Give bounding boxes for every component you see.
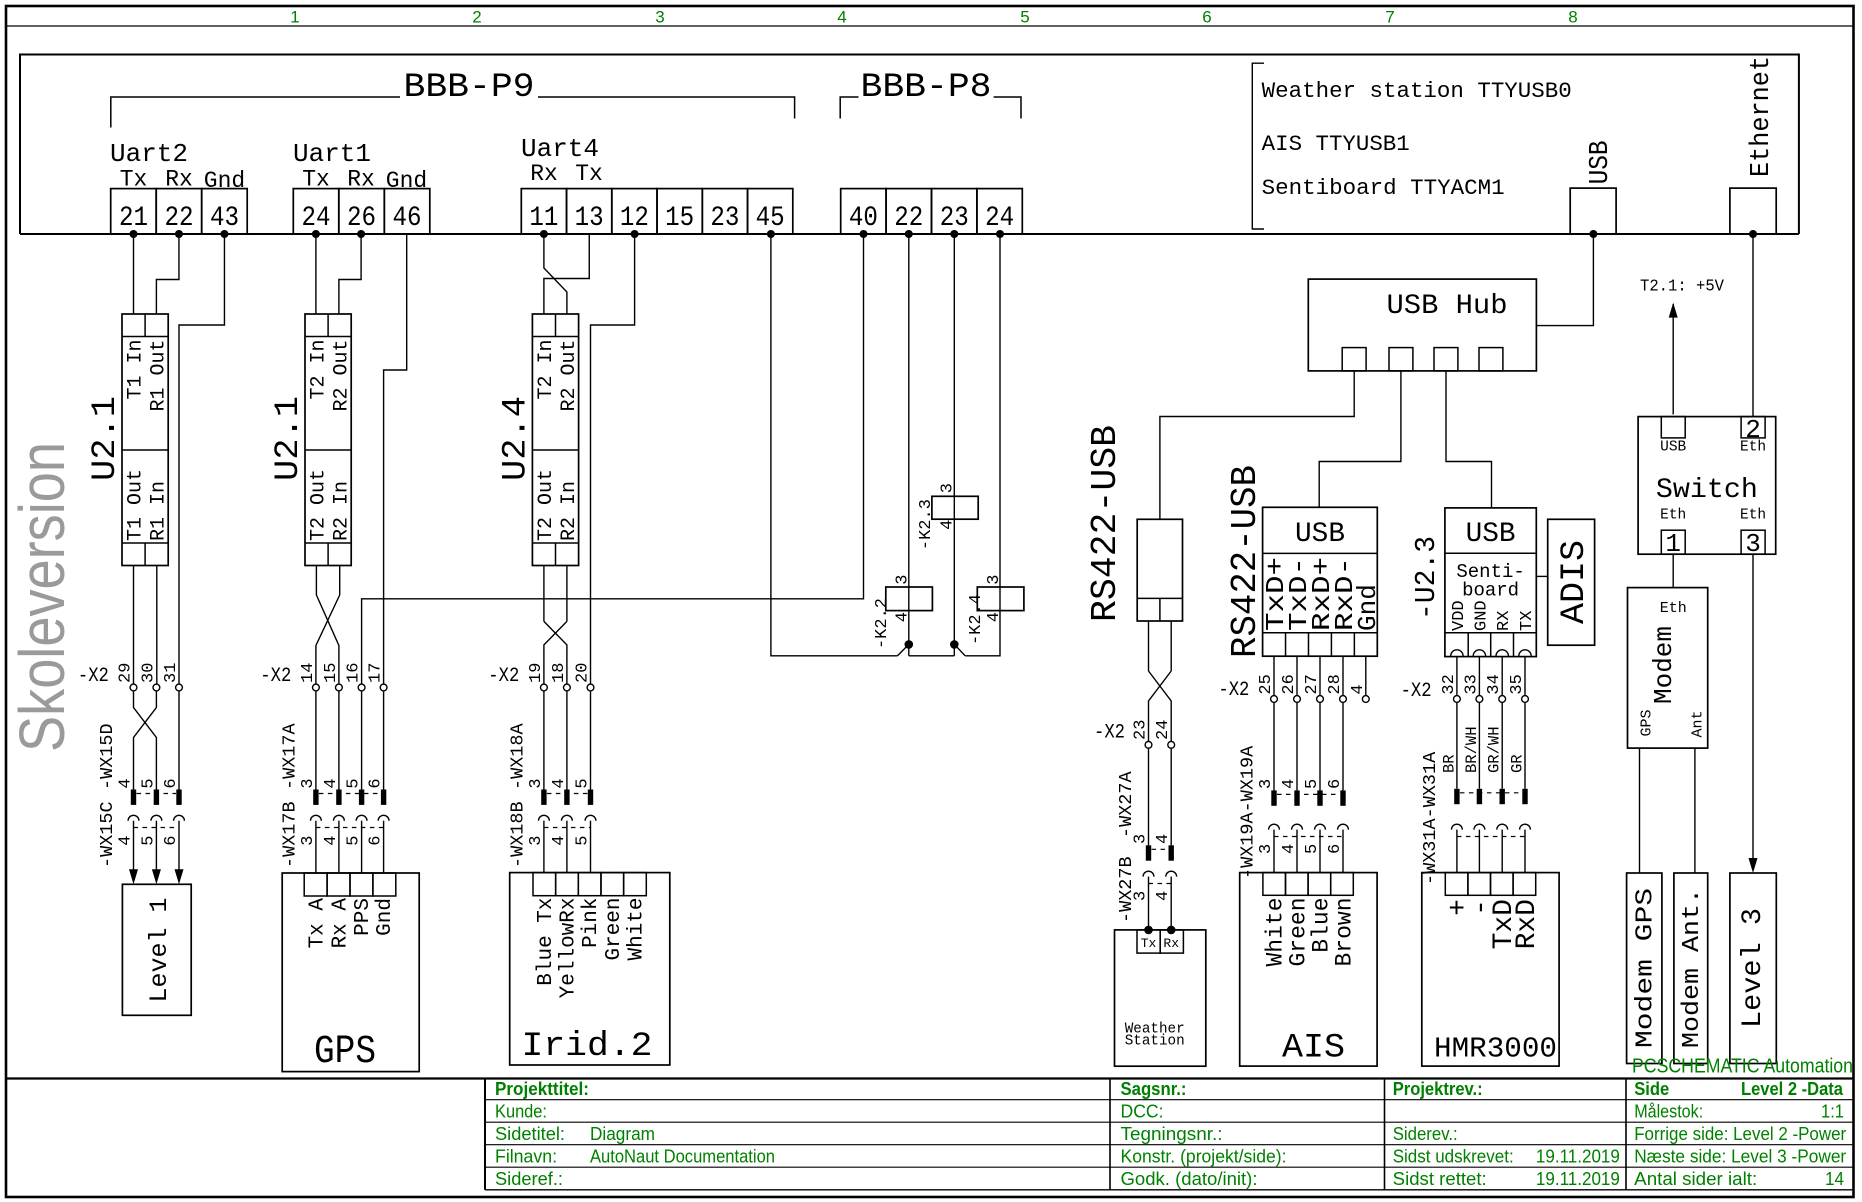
svg-text:19: 19: [527, 663, 546, 683]
cable WX18A label: [507, 722, 528, 790]
svg-text:31: 31: [162, 663, 181, 683]
USB connector box: [1570, 188, 1616, 234]
wire T2 pins down: [316, 566, 339, 596]
junction under pin 24: [312, 230, 320, 238]
junction under pin 26: [357, 230, 365, 238]
GPS name: [314, 1030, 376, 1075]
contact K2.3 designator: [917, 499, 936, 550]
AIS cable pin numbers upper: [1257, 779, 1345, 789]
svg-text:Blue Tx: Blue Tx: [535, 898, 558, 986]
group1 wire 31 down: [178, 691, 180, 790]
group3 wires to Irid: [544, 821, 591, 873]
group2 X2 14 15 16 17 terminal numbers: [299, 663, 386, 683]
svg-text:-X2: -X2: [260, 665, 291, 688]
svg-text:16: 16: [345, 663, 364, 683]
Modem name: [1649, 626, 1679, 704]
Switch Eth bottom left label: [1660, 507, 1686, 523]
wire P8-22 through K2.2: [908, 234, 910, 656]
HMR3000 name: [1434, 1032, 1557, 1065]
Level 1 box: [122, 884, 191, 1015]
BBB frame box: [20, 55, 1799, 235]
wire P8-23 through K2.3: [953, 234, 955, 656]
Switch port 3: [1741, 529, 1765, 559]
AIS X2 25 26 27 28 4 terminal circles: [1271, 696, 1370, 703]
U2.1b uart1 driver: [305, 314, 354, 566]
cable WX31A label: [1420, 751, 1441, 885]
Weather Station name: [1125, 1022, 1185, 1050]
svg-text:8: 8: [1568, 8, 1577, 27]
Sentiboard box: [1445, 508, 1536, 657]
Irid.2 pin labels: [535, 898, 649, 999]
svg-text:USB: USB: [1586, 140, 1616, 184]
svg-text:-WX31A-WX31A: -WX31A-WX31A: [1420, 751, 1441, 885]
weather crossover: [1149, 671, 1172, 741]
wire modem Ant down: [1694, 748, 1696, 873]
junction under pin 45: [767, 230, 775, 238]
svg-text:5: 5: [345, 778, 364, 788]
Modem Ant label: [1679, 888, 1706, 1048]
Uart4 Rx label: [530, 161, 558, 187]
junction under pin 12: [631, 230, 639, 238]
svg-text:3: 3: [985, 575, 1004, 585]
junction under pin 21: [130, 230, 138, 238]
svg-text:GND: GND: [1472, 600, 1491, 631]
svg-text:Side: Side: [1634, 1079, 1669, 1099]
svg-text:-K2.4: -K2.4: [967, 594, 986, 645]
svg-text:Tx: Tx: [302, 167, 330, 193]
svg-text:Godk. (dato/init):: Godk. (dato/init):: [1121, 1169, 1258, 1189]
Switch port 1: [1661, 529, 1685, 559]
Switch USB port label: [1660, 439, 1686, 455]
Level 1 label: [145, 898, 174, 1003]
group3 crossover: [544, 621, 567, 687]
Level 3 box: [1730, 873, 1776, 1064]
contact K2.2 pin 3: [894, 575, 913, 585]
svg-text:-WX15C: -WX15C: [97, 801, 118, 868]
Ethernet connector box: [1730, 188, 1776, 234]
svg-text:RS422-USB: RS422-USB: [1085, 425, 1126, 622]
X2 label HMR: [1401, 680, 1432, 703]
Uart2 label: [110, 139, 188, 169]
group3 X2 19 18 20 terminal circles: [541, 684, 594, 691]
grid column number 2: [472, 8, 481, 27]
svg-text:U2.1: U2.1: [87, 396, 125, 481]
svg-text:28: 28: [1326, 674, 1345, 694]
U2.4 uart4 driver: [532, 314, 581, 566]
Uart4 header pins 11 13 12 15 23 45: [521, 189, 793, 234]
Uart2 Rx label: [165, 167, 193, 193]
AIS X2 25 26 27 28 4 terminal numbers: [1257, 674, 1368, 694]
svg-text:GPS: GPS: [1639, 709, 1656, 736]
group1 cable pin numbers upper: [117, 778, 182, 788]
svg-text:4: 4: [1154, 891, 1173, 901]
svg-text:-K2.2: -K2.2: [873, 598, 892, 649]
svg-text:Sidst rettet:: Sidst rettet:: [1393, 1169, 1487, 1189]
svg-text:Siderev.:: Siderev.:: [1393, 1124, 1458, 1144]
svg-text:6: 6: [367, 835, 386, 845]
group3 wires to marks: [544, 691, 591, 790]
svg-text:Uart1: Uart1: [293, 139, 371, 169]
ADIS box: [1548, 519, 1595, 645]
contact K2.2 box: [886, 587, 933, 611]
svg-text:Tegningsnr.:: Tegningsnr.:: [1121, 1124, 1223, 1144]
svg-text:21: 21: [119, 203, 148, 234]
Sentiboard name: [1456, 561, 1524, 602]
svg-text:Sentiboard TTYACM1: Sentiboard TTYACM1: [1262, 176, 1505, 201]
svg-text:-WX27B: -WX27B: [1116, 856, 1137, 923]
Level 3 label: [1738, 908, 1769, 1028]
svg-text:4: 4: [1280, 779, 1299, 789]
svg-text:-WX27A: -WX27A: [1116, 770, 1137, 838]
svg-text:19.11.2019: 19.11.2019: [1536, 1147, 1620, 1167]
USB Hub box: [1308, 279, 1536, 371]
svg-text:34: 34: [1485, 674, 1504, 694]
Ethernet connector label: [1747, 56, 1777, 177]
contact K2.2 blade: [898, 640, 914, 656]
svg-text:T2.1: +5V: T2.1: +5V: [1640, 277, 1724, 296]
U2.1 designator: [87, 396, 125, 481]
svg-text:BBB-P9: BBB-P9: [404, 69, 535, 107]
group3 cable pin numbers lower: [527, 835, 593, 845]
svg-text:23: 23: [940, 203, 969, 234]
svg-text:Projektrev.:: Projektrev.:: [1393, 1079, 1483, 1099]
svg-text:R2 In: R2 In: [558, 481, 581, 541]
Modem box: [1628, 588, 1708, 749]
svg-text:2: 2: [472, 8, 481, 27]
HMR X2 32 33 34 35 terminal numbers: [1440, 674, 1527, 694]
converter 2 USB label: [1295, 519, 1345, 550]
Uart1 header pins 24 26 46: [293, 189, 430, 234]
svg-text:Pink: Pink: [580, 898, 603, 948]
column number strip line: [7, 25, 1853, 27]
BBB-P9 label: [404, 69, 535, 107]
svg-text:Gnd: Gnd: [1353, 584, 1383, 631]
junction under pin 40: [860, 230, 868, 238]
svg-text:DCC:: DCC:: [1121, 1102, 1164, 1122]
title block divider projektrev: [1384, 1079, 1386, 1190]
svg-text:4: 4: [550, 835, 569, 845]
U2.4 designator: [497, 396, 535, 481]
svg-text:15: 15: [665, 203, 694, 234]
wire T1 pins to X2 terminals: [134, 566, 157, 688]
svg-text:PPS: PPS: [352, 898, 375, 936]
wire U2.4 pins down: [544, 566, 567, 622]
svg-text:3: 3: [299, 778, 318, 788]
RS422-USB converter 2 box: [1263, 507, 1378, 656]
AIS cable entry marks: [1271, 790, 1345, 805]
tty note line 2: [1262, 132, 1410, 157]
Modem GPS pin label: [1639, 709, 1656, 736]
svg-text:-X2: -X2: [78, 665, 109, 688]
grid column number 3: [655, 8, 664, 27]
svg-text:23: 23: [710, 203, 739, 234]
svg-text:11: 11: [529, 203, 558, 234]
svg-text:4: 4: [550, 778, 569, 788]
wire 43 Gnd jog: [179, 234, 224, 688]
svg-text:Modem Ant.: Modem Ant.: [1679, 888, 1706, 1048]
svg-text:30: 30: [139, 663, 158, 683]
AIS cable pin numbers lower: [1257, 844, 1345, 854]
svg-text:Eth: Eth: [1740, 507, 1766, 523]
svg-text:Sagsnr.:: Sagsnr.:: [1121, 1079, 1187, 1099]
group1 cable pin numbers lower: [117, 835, 182, 845]
svg-text:RX: RX: [1495, 611, 1514, 631]
contact K2.4 blade: [950, 640, 965, 656]
svg-text:R1 Out: R1 Out: [148, 340, 171, 412]
BBB-P9 bracket: [111, 97, 795, 128]
svg-text:Projekttitel:: Projekttitel:: [495, 1079, 589, 1099]
grid column number 1: [290, 8, 299, 27]
wire 22 to R1 Out: [156, 234, 179, 314]
Sentiboard USB label: [1466, 519, 1516, 550]
Weather Station Rx label: [1163, 936, 1179, 951]
Modem Ant box: [1674, 873, 1708, 1064]
svg-text:Brown: Brown: [1332, 898, 1358, 967]
weather wires from converter: [1149, 621, 1172, 671]
Level 3 arrow: [1749, 858, 1758, 873]
Switch port 2: [1741, 415, 1765, 445]
svg-text:Ant: Ant: [1690, 710, 1707, 737]
watermark Skoleversion: [6, 442, 78, 752]
svg-text:-K2.3: -K2.3: [917, 499, 936, 550]
svg-text:Tx A: Tx A: [306, 898, 329, 949]
svg-text:19.11.2019: 19.11.2019: [1536, 1169, 1620, 1189]
svg-text:45: 45: [756, 203, 785, 234]
svg-text:26: 26: [1280, 674, 1299, 694]
svg-text:Modem GPS: Modem GPS: [1633, 888, 1660, 1048]
svg-text:R2 In: R2 In: [331, 481, 354, 541]
svg-text:-WX17A: -WX17A: [279, 722, 300, 790]
Uart2 Gnd label: [204, 168, 245, 194]
svg-text:AIS TTYUSB1: AIS TTYUSB1: [1262, 132, 1410, 157]
Uart4 label: [521, 134, 599, 164]
group3 cable entry marks: [541, 790, 593, 805]
svg-text:Tx: Tx: [120, 167, 148, 193]
Uart1 label: [293, 139, 371, 169]
group2 cable pin numbers lower: [299, 835, 386, 845]
svg-text:27: 27: [1303, 674, 1322, 694]
svg-text:5: 5: [574, 835, 593, 845]
svg-text:6: 6: [162, 835, 181, 845]
GPS pin labels: [306, 898, 397, 949]
Switch Eth top label: [1740, 439, 1766, 455]
Uart2 header pins 21 22 43: [111, 189, 248, 234]
svg-text:BBB-P8: BBB-P8: [861, 69, 992, 107]
svg-text:6: 6: [367, 778, 386, 788]
Uart1 Gnd label: [386, 168, 427, 194]
svg-text:22: 22: [894, 203, 923, 234]
title block top line: [7, 1077, 1853, 1079]
svg-text:Rx A: Rx A: [329, 898, 352, 949]
group1 crossover: [134, 691, 157, 790]
svg-text:4: 4: [322, 835, 341, 845]
svg-text:USB: USB: [1466, 519, 1516, 550]
grid column number 8: [1568, 8, 1577, 27]
svg-text:4: 4: [985, 612, 1004, 622]
weather cable pin numbers lower: [1132, 891, 1174, 901]
HMR3000 pin cells: [1445, 873, 1535, 896]
group2 wires to marks: [316, 691, 384, 790]
junction under USB connector: [1589, 230, 1597, 238]
weather wires to station: [1149, 877, 1172, 930]
title block row line y1167.2: [485, 1166, 1853, 1168]
svg-text:4: 4: [322, 778, 341, 788]
svg-text:R2 Out: R2 Out: [331, 340, 354, 412]
wire 45 to K2.2 contact: [771, 234, 898, 656]
svg-text:Ethernet: Ethernet: [1747, 56, 1777, 177]
contact K2.3 pin 3: [939, 483, 958, 493]
svg-text:4: 4: [837, 8, 846, 27]
HMR wire color labels: [1440, 726, 1526, 773]
wire P8-24 through K2.4: [965, 234, 1000, 656]
svg-text:VDD: VDD: [1450, 600, 1469, 631]
Switch Eth bottom right label: [1740, 507, 1766, 523]
svg-text:6: 6: [162, 778, 181, 788]
svg-text:Rx: Rx: [1163, 936, 1179, 951]
svg-text:12: 12: [620, 203, 649, 234]
X2 label group2: [260, 665, 291, 688]
group1 X2 29 30 31 terminal numbers: [117, 663, 182, 683]
Sentiboard pin labels: [1450, 600, 1537, 631]
svg-text:HMR3000: HMR3000: [1434, 1032, 1557, 1065]
X2 label weather: [1094, 722, 1125, 745]
svg-text:RxD: RxD: [1512, 899, 1543, 949]
Weather Station Tx label: [1141, 936, 1157, 951]
svg-text:14: 14: [299, 663, 318, 683]
svg-text:Tx: Tx: [1141, 936, 1157, 951]
AIS wires to device: [1274, 830, 1343, 873]
X2 label group1: [78, 665, 109, 688]
wire Ethernet to switch port2: [1752, 234, 1754, 417]
weather X2 23 24 terminal numbers: [1132, 720, 1174, 740]
svg-text:-X2: -X2: [1094, 722, 1125, 745]
title block row line y1099.7: [485, 1099, 1853, 1101]
svg-text:Konstr. (projekt/side):: Konstr. (projekt/side):: [1121, 1147, 1287, 1167]
RS422-USB converter 1 box: [1137, 519, 1182, 621]
Uart2 Tx label: [120, 167, 148, 193]
Modem GPS box: [1627, 873, 1662, 1064]
svg-text:40: 40: [849, 203, 878, 234]
svg-text:Eth: Eth: [1660, 600, 1687, 617]
weather cable pin numbers upper: [1132, 834, 1174, 844]
BBB-P8 label: [861, 69, 992, 107]
svg-text:-WX17B: -WX17B: [279, 801, 300, 868]
svg-text:32: 32: [1440, 674, 1459, 694]
BBB-P8 bracket: [840, 97, 1021, 119]
contact K2.3 box: [932, 496, 978, 519]
svg-text:3: 3: [1257, 844, 1276, 854]
svg-text:5: 5: [1303, 844, 1322, 854]
converter 2 pin labels: [1261, 557, 1383, 631]
svg-text:AIS: AIS: [1282, 1029, 1345, 1067]
group2 cable entry marks: [313, 790, 386, 805]
HMR3000 box: [1422, 873, 1559, 1067]
svg-text:20: 20: [574, 663, 593, 683]
svg-text:T1 Out: T1 Out: [125, 469, 148, 541]
group1 arrows: [129, 869, 184, 884]
svg-text:29: 29: [117, 663, 136, 683]
svg-text:R1 In: R1 In: [148, 481, 171, 541]
cable WX17B label: [279, 801, 300, 868]
grid column number 5: [1020, 8, 1029, 27]
contact K2.2 pin 4: [894, 612, 913, 622]
svg-text:USB: USB: [1295, 519, 1345, 550]
svg-text:7: 7: [1385, 8, 1394, 27]
svg-text:Uart4: Uart4: [521, 134, 599, 164]
svg-text:5: 5: [345, 835, 364, 845]
Switch box: [1638, 417, 1776, 555]
svg-text:board: board: [1462, 580, 1519, 602]
svg-text:3: 3: [299, 835, 318, 845]
svg-text:Level 1: Level 1: [145, 898, 174, 1003]
HMR wires to device: [1457, 830, 1525, 873]
svg-text:T1 In: T1 In: [125, 340, 148, 400]
group3 cable pin numbers upper: [527, 778, 593, 788]
svg-text:4: 4: [117, 778, 136, 788]
svg-text:Rx: Rx: [530, 161, 558, 187]
grid column number 7: [1385, 8, 1394, 27]
wire 26 to R2 Out: [339, 234, 361, 314]
Uart1 Rx label: [347, 167, 375, 193]
RS422-USB label 1: [1085, 425, 1126, 622]
U2.1 uart2 driver: [122, 314, 171, 566]
svg-text:-WX18B: -WX18B: [507, 801, 528, 868]
svg-text:Rx: Rx: [347, 167, 375, 193]
grid column number 4: [837, 8, 846, 27]
Switch USB port: [1661, 417, 1685, 438]
svg-text:4: 4: [1349, 684, 1368, 694]
AIS connector arcs: [1269, 824, 1349, 836]
wire 24 to T2 In: [315, 234, 317, 314]
svg-text:25: 25: [1257, 674, 1276, 694]
cable WX19A label: [1238, 745, 1259, 879]
weather wires to marks: [1149, 748, 1172, 845]
Sentiboard socket arcs: [1451, 650, 1532, 656]
svg-text:Gnd: Gnd: [374, 898, 397, 936]
Uart1 Tx label: [302, 167, 330, 193]
group1 wires to Level 1: [134, 821, 180, 870]
svg-text:-U2.3: -U2.3: [1410, 536, 1443, 620]
cable WX15C label: [97, 801, 118, 868]
Weather Station box: [1115, 930, 1206, 1066]
svg-text:Tx: Tx: [575, 161, 603, 187]
svg-text:3: 3: [1257, 779, 1276, 789]
svg-text:-WX19A-WX19A: -WX19A-WX19A: [1238, 745, 1259, 879]
contact K2.4 designator: [967, 594, 986, 645]
cable WX15D label: [97, 723, 118, 790]
svg-text:White: White: [626, 898, 649, 961]
svg-text:-X2: -X2: [1218, 679, 1249, 702]
wire USB connector to hub: [1536, 234, 1593, 326]
svg-text:-X2: -X2: [1401, 680, 1432, 703]
svg-text:Sideref.:: Sideref.:: [495, 1169, 563, 1189]
wire contact link B: [909, 655, 955, 657]
HMR3000 pin labels: [1444, 899, 1543, 949]
Irid.2 name: [522, 1028, 653, 1066]
svg-text:Sidst udskrevet:: Sidst udskrevet:: [1393, 1147, 1514, 1167]
group2 cable pin numbers upper: [299, 778, 386, 788]
svg-text:35: 35: [1508, 674, 1527, 694]
wire 46 Gnd jog: [384, 234, 407, 688]
cable WX27B label: [1116, 856, 1137, 923]
group2 connector arcs: [311, 815, 390, 827]
svg-text:ADIS: ADIS: [1556, 540, 1594, 624]
svg-text:5: 5: [574, 778, 593, 788]
svg-text:T2 In: T2 In: [308, 340, 331, 400]
ADIS link wire: [1536, 575, 1547, 577]
svg-text:GR: GR: [1509, 754, 1527, 773]
svg-text:YellowRx: YellowRx: [558, 898, 581, 999]
